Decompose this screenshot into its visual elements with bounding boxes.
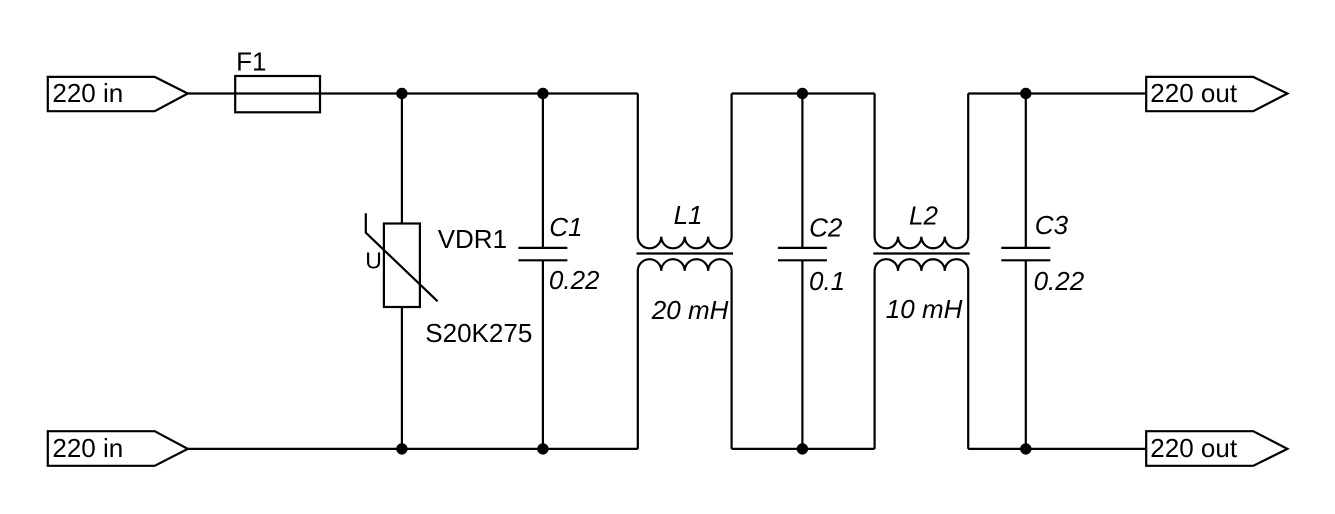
svg-text:C3: C3 — [1035, 210, 1069, 240]
wire: VDR1 rail top — [401, 94, 403, 224]
svg-text:L2: L2 — [909, 200, 938, 230]
wire bottom: L2 right to output — [968, 448, 1146, 450]
junction dot bottom C2 — [797, 443, 808, 454]
capacitor C3 plates — [1001, 247, 1050, 249]
svg-text:0.22: 0.22 — [1034, 266, 1085, 296]
svg-text:20 mH: 20 mH — [651, 295, 729, 325]
fuse F1 — [235, 76, 320, 112]
connector 220 in (bottom input) — [48, 431, 188, 466]
wire top: L1 right to L2 left — [732, 92, 875, 94]
junction dot bottom C3 — [1020, 443, 1031, 454]
svg-text:220 in: 220 in — [52, 433, 123, 463]
junction dot bottom VDR1 — [396, 443, 407, 454]
inductor L2 core — [873, 252, 969, 254]
wire: C2 rail bottom — [801, 260, 803, 449]
svg-text:S20K275: S20K275 — [425, 318, 532, 348]
svg-text:L1: L1 — [674, 200, 703, 230]
varistor VDR1 body — [384, 224, 420, 308]
wire bottom: L1 right to L2 left — [732, 448, 875, 450]
junction dot bottom C1 — [537, 443, 548, 454]
svg-text:0.1: 0.1 — [809, 266, 845, 296]
junction dot top C1 — [537, 88, 548, 99]
svg-text:220 out: 220 out — [1150, 78, 1238, 108]
svg-text:C2: C2 — [809, 212, 843, 242]
wire: C3 rail bottom — [1025, 260, 1027, 449]
inductor L1 bottom winding — [638, 259, 732, 449]
junction dot top C2 — [797, 88, 808, 99]
wire top: input tip to L1 left — [187, 92, 638, 94]
inductor L2 bottom winding — [875, 259, 969, 449]
svg-text:U: U — [365, 248, 382, 274]
svg-text:220 in: 220 in — [52, 78, 123, 108]
varistor VDR1 diagonal stroke — [366, 213, 438, 301]
svg-text:10 mH: 10 mH — [886, 294, 963, 324]
svg-text:0.22: 0.22 — [549, 265, 600, 295]
svg-text:220 out: 220 out — [1150, 433, 1238, 463]
connector 220 out (bottom output) — [1146, 431, 1287, 466]
connector 220 in (top input) — [48, 77, 188, 111]
connector 220 out (top output) — [1146, 77, 1287, 111]
wire bottom: input tip to L1 left — [187, 448, 638, 450]
wire: C1 rail top — [542, 94, 544, 248]
svg-text:VDR1: VDR1 — [438, 224, 507, 254]
wire: C2 rail top — [801, 94, 803, 248]
inductor L1 top winding — [638, 94, 732, 249]
capacitor C2 plates — [778, 247, 827, 249]
svg-text:C1: C1 — [549, 212, 582, 242]
wire: C1 rail bottom — [542, 260, 544, 449]
wire: VDR1 rail bottom — [401, 307, 403, 449]
svg-text:F1: F1 — [236, 46, 266, 76]
capacitor C1 plates — [518, 247, 567, 249]
wire: C3 rail top — [1025, 94, 1027, 248]
inductor L1 core — [637, 252, 734, 254]
junction dot top VDR1 — [396, 88, 407, 99]
inductor L2 top winding — [875, 94, 969, 249]
junction dot top C3 — [1020, 88, 1031, 99]
wire top: L2 right to output — [968, 92, 1146, 94]
